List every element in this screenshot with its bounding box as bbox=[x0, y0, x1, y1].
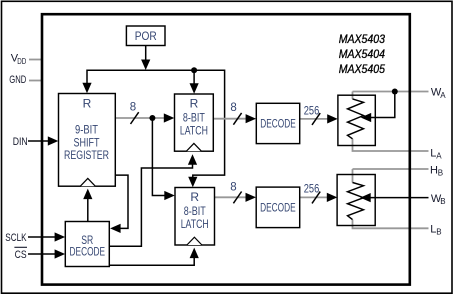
svg-text:R: R bbox=[83, 97, 92, 111]
svg-text:REGISTER: REGISTER bbox=[64, 148, 109, 162]
wire SCLK input bbox=[28, 236, 58, 238]
wire CS input bbox=[28, 253, 58, 255]
wire latch B to decode B (gray) bbox=[215, 196, 249, 198]
wire latch A clock from SR decode bbox=[110, 163, 193, 246]
svg-text:256: 256 bbox=[304, 105, 320, 117]
bus slash 8 A bbox=[131, 112, 139, 124]
svg-text:8-BIT: 8-BIT bbox=[183, 111, 205, 125]
svg-text:B: B bbox=[440, 197, 445, 206]
svg-text:B: B bbox=[436, 228, 441, 237]
svg-text:GND: GND bbox=[9, 74, 26, 86]
svg-text:9-BIT: 9-BIT bbox=[75, 123, 99, 137]
svg-text:DD: DD bbox=[17, 57, 26, 66]
wire reset to latch A R bbox=[193, 70, 195, 85]
svg-text:DIN: DIN bbox=[13, 136, 28, 148]
wire H_B pin (gray) bbox=[353, 169, 429, 183]
bus slash 256 B bbox=[312, 192, 320, 204]
svg-text:MAX5404: MAX5404 bbox=[339, 48, 386, 61]
svg-text:8: 8 bbox=[130, 102, 136, 114]
bus slash 256 A bbox=[312, 113, 320, 125]
wire W_B pin wiper bbox=[370, 197, 429, 199]
svg-text:8-BIT: 8-BIT bbox=[184, 204, 206, 218]
node reset junction bbox=[191, 67, 197, 73]
wire data bus to latch B bbox=[152, 118, 167, 196]
wire decode B to pot B (gray) bbox=[300, 196, 330, 198]
bus slash 8 B bbox=[233, 192, 241, 204]
svg-text:A: A bbox=[436, 152, 442, 161]
clock wedge shift register bbox=[80, 178, 95, 186]
svg-text:DECODE: DECODE bbox=[70, 245, 106, 259]
wire POR to reset line bbox=[145, 46, 147, 62]
wire decode A to pot A (gray) bbox=[300, 118, 330, 120]
svg-text:R: R bbox=[190, 190, 199, 204]
svg-text:LATCH: LATCH bbox=[181, 217, 209, 231]
decode B block bbox=[256, 187, 300, 228]
wire shift register 9th bit to SR decode bbox=[115, 175, 128, 228]
wire GND stub bbox=[29, 80, 41, 82]
svg-text:256: 256 bbox=[304, 183, 320, 195]
svg-text:MAX5403: MAX5403 bbox=[339, 33, 386, 46]
wire wiper A bbox=[370, 92, 395, 118]
decode A block bbox=[256, 103, 299, 143]
wire DIN input bbox=[28, 140, 51, 142]
svg-text:POR: POR bbox=[135, 29, 157, 43]
resistor zigzag B bbox=[348, 183, 364, 220]
wire W_A pin (gray) bbox=[353, 92, 429, 99]
potentiometer B box bbox=[337, 175, 375, 226]
wire latch B clock from SR decode bbox=[110, 256, 195, 265]
svg-text:B: B bbox=[438, 169, 443, 178]
svg-text:DECODE: DECODE bbox=[260, 117, 296, 131]
svg-text:A: A bbox=[440, 91, 446, 100]
svg-text:CS: CS bbox=[15, 249, 27, 261]
SR decode block bbox=[65, 222, 109, 267]
svg-text:8: 8 bbox=[230, 182, 236, 194]
svg-text:R: R bbox=[190, 97, 199, 111]
node wiper A junction bbox=[392, 89, 398, 95]
node data bus junction bbox=[149, 115, 155, 121]
clock wedge latch B bbox=[187, 237, 202, 245]
wire shift register data bus to latch A (gray) bbox=[115, 117, 167, 119]
wire V_DD stub bbox=[29, 59, 41, 61]
wire L_B pin (gray) bbox=[353, 220, 429, 229]
wire L_A pin (gray) bbox=[353, 139, 429, 151]
wire reset distribution line bbox=[87, 70, 225, 179]
bus slash 8 A2 bbox=[233, 113, 241, 125]
potentiometer A box bbox=[338, 95, 375, 145]
wire latch A to decode A (gray) bbox=[213, 118, 248, 120]
svg-text:MAX5405: MAX5405 bbox=[339, 63, 386, 76]
POR block bbox=[126, 26, 165, 46]
8-bit latch A block bbox=[175, 94, 214, 151]
svg-text:8: 8 bbox=[230, 102, 236, 114]
8-bit latch B block bbox=[175, 188, 215, 246]
svg-text:H: H bbox=[430, 164, 438, 176]
clock wedge latch A bbox=[186, 143, 201, 151]
9-bit shift register block bbox=[59, 94, 116, 187]
svg-text:SCLK: SCLK bbox=[5, 232, 27, 244]
svg-text:DECODE: DECODE bbox=[260, 201, 296, 215]
resistor zigzag A bbox=[348, 99, 364, 139]
wire shift register clock from SR decode bbox=[87, 197, 89, 222]
svg-text:LATCH: LATCH bbox=[180, 124, 208, 138]
outer IC box bbox=[42, 14, 410, 284]
